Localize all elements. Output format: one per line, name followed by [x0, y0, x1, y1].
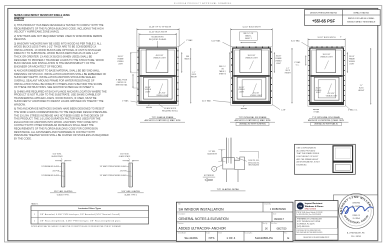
svg-text:VISIBLE: VISIBLE [315, 90, 322, 92]
meeting rail [311, 75, 343, 77]
D1 jamb anchor marks [136, 49, 139, 52]
svg-text:ANCHOR LOCATIONS @ MAX. SIZE: ANCHOR LOCATIONS @ MAX. SIZE [144, 119, 181, 122]
prepared by block [296, 217, 337, 228]
svg-text:WINDOW: WINDOW [14, 19, 25, 21]
meeting rail [234, 75, 270, 77]
svg-text:A. LYNN MILLER, P.E.: A. LYNN MILLER, P.E. [347, 232, 366, 235]
lower sash visible light [242, 80, 262, 97]
svg-text:VISIBLE LIGHT: VISIBLE LIGHT [250, 95, 262, 97]
svg-text:2) SHUTTERS ARE NOT REQUIRED W: 2) SHUTTERS ARE NOT REQUIRED WHEN USED I… [14, 35, 102, 38]
svg-text:O.C.: O.C. [296, 65, 300, 67]
svg-text:REQUIRED IN HEAD: REQUIRED IN HEAD [149, 38, 167, 41]
svg-text:ALLOWED PROVIDED: ALLOWED PROVIDED [297, 149, 316, 152]
svg-text:.090 PVB: .090 PVB [52, 171, 59, 173]
D1 bottom spacing dim [146, 106, 152, 108]
svg-text:HEIGHT: HEIGHT [285, 73, 291, 75]
svg-text:1'-7": 1'-7" [286, 68, 290, 70]
svg-text:(941) 480-1600: (941) 480-1600 [297, 226, 309, 228]
svg-text:P.E.# 58705: P.E.# 58705 [351, 236, 361, 238]
D1 right dim buck height [190, 48, 192, 103]
svg-text:CENTER OF: CENTER OF [117, 82, 126, 84]
svg-text:GLASS STACK: GLASS STACK [119, 155, 131, 158]
svg-text:JK: JK [265, 228, 268, 231]
svg-text:VISIBLE LIGHT: VISIBLE LIGHT [156, 95, 168, 97]
svg-text:47-1/16": 47-1/16" [328, 93, 335, 95]
svg-text:SH4108FLPA: SH4108FLPA [255, 236, 273, 240]
svg-text:Drawn By:: Drawn By: [264, 204, 271, 206]
svg-text:Rev. By:: Rev. By: [263, 223, 268, 225]
D2 o.c. spacing note box [240, 32, 258, 40]
lower sash [237, 77, 266, 99]
svg-text:THAT THE FRAME VISIBLE: THAT THE FRAME VISIBLE [297, 152, 320, 155]
svg-text:ANCHOR LOCATIONS @ MAX. SIZE: ANCHOR LOCATIONS @ MAX. SIZE [308, 119, 345, 122]
svg-text:SH-4108A: SH-4108A [184, 236, 197, 240]
svg-text:.090 PVB: .090 PVB [120, 171, 127, 173]
svg-text:2" MAX.: 2" MAX. [186, 39, 193, 42]
svg-text:VISIBLE: VISIBLE [349, 61, 356, 63]
svg-text:SEE: SEE [186, 56, 189, 58]
svg-text:RATED FOR LARGE & SMALL: RATED FOR LARGE & SMALL [348, 17, 376, 20]
svg-text:NTS: NTS [209, 236, 215, 240]
lower sash [143, 77, 172, 99]
stamp cell [333, 195, 377, 241]
meeting rail [140, 75, 176, 77]
glass slash marks [250, 61, 254, 70]
glazing detail frame below [225, 170, 227, 182]
svg-text:LIGHT: LIGHT [316, 92, 321, 94]
description row [271, 212, 273, 222]
svg-text:SH WINDOW INSTALLATION: SH WINDOW INSTALLATION [179, 207, 225, 211]
svg-text:EXTERIOR: EXTERIOR [204, 175, 215, 177]
svg-text:SUFFICIENTLY ANCHORED TO RESIS: SUFFICIENTLY ANCHORED TO RESIST LOADS IM… [14, 100, 104, 103]
svg-text:LIGHT: LIGHT [276, 63, 281, 65]
svg-text:GLASS BITE: GLASS BITE [207, 153, 218, 156]
svg-text:IMPACT RATING: IMPACT RATING [354, 12, 370, 15]
window frame [139, 48, 177, 103]
svg-text:CERTIFIED: CERTIFIED [352, 203, 361, 205]
svg-text:J ROBOWSKI: J ROBOWSKI [270, 207, 287, 211]
svg-text:DESIGN PRESSURE RATING: DESIGN PRESSURE RATING [310, 12, 338, 15]
svg-text:4" MAX.: 4" MAX. [122, 100, 129, 103]
D2 bottom spacing dim [241, 108, 247, 110]
svg-text:2: 2 [34, 221, 35, 223]
svg-text:VISIBLE LIGHT: VISIBLE LIGHT [326, 96, 338, 98]
D2 screw anchor marks [236, 47, 237, 48]
svg-text:REGIONS.: REGIONS. [14, 38, 27, 41]
svg-text:+55/-65 PSF: +55/-65 PSF [312, 18, 336, 23]
svg-text:1/8" Annealed, 0.090" PVB Inte: 1/8" Annealed, 0.090" PVB Interlayer, 1/… [40, 213, 120, 216]
company box [295, 201, 338, 241]
svg-text:WINDOW.: WINDOW. [14, 104, 26, 107]
upper sash visible light [146, 50, 168, 73]
revision row [261, 222, 263, 232]
svg-text:SHEET 3: SHEET 3 [245, 38, 252, 40]
svg-text:38-1/8": 38-1/8" [316, 87, 322, 89]
D2 o.c. spacing dim [241, 42, 257, 44]
svg-text:LIGHT: LIGHT [145, 92, 150, 94]
svg-text:52-1/2" BUCK WIDTH: 52-1/2" BUCK WIDTH [317, 37, 336, 39]
svg-text:MISSILE IMPACT RESISTANCE: MISSILE IMPACT RESISTANCE [347, 21, 376, 24]
svg-text:2-7/8": 2-7/8" [281, 110, 286, 112]
svg-text:VISIBLE LIGHT: VISIBLE LIGHT [320, 57, 333, 59]
svg-text:Scale:: Scale: [206, 233, 210, 235]
glass stack detail 2 [128, 163, 130, 187]
svg-text:TYP. INTEGRAL FIN FRAME: TYP. INTEGRAL FIN FRAME [239, 116, 267, 119]
svg-text:(INSTALLED WITH NAILS): (INSTALLED WITH NAILS) [314, 123, 338, 126]
D3 right dim buck height [370, 48, 372, 105]
D1 extension lines [136, 28, 138, 46]
svg-text:GENERAL NOTES & ELEVATION: GENERAL NOTES & ELEVATION [179, 217, 230, 221]
svg-text:TABLE 1: TABLE 1 [31, 203, 38, 206]
svg-text:E: E [287, 236, 289, 240]
svg-text:Impact Resistant: Impact Resistant [305, 202, 323, 205]
svg-text:HEIGHT: HEIGHT [191, 77, 197, 79]
flange/fin outline [137, 46, 179, 105]
svg-text:DOW-791, 899,: DOW-791, 899, [248, 160, 260, 162]
stamp signature [342, 206, 373, 213]
svg-text:6-1/2" MAX.: 6-1/2" MAX. [202, 99, 212, 102]
svg-text:Tel: 305-593-6590 | Fax: 305: Tel: 305-593-6590 | Fax: 305-593-6591 [296, 214, 321, 216]
svg-text:8-1/2" MAX.: 8-1/2" MAX. [291, 39, 301, 42]
svg-text:Laminated Glass Types: Laminated Glass Types [78, 207, 102, 210]
svg-text:BY THE CODE.: BY THE CODE. [14, 137, 32, 140]
glazing detail head line [240, 150, 259, 152]
lower sash visible light [148, 80, 168, 97]
svg-text:ADDED ULTRACON+ ANCHOR: ADDED ULTRACON+ ANCHOR [179, 227, 227, 231]
lower sash [314, 77, 339, 100]
svg-text:1: 1 [34, 214, 35, 216]
window frame [233, 48, 271, 103]
flange/fin outline [308, 46, 345, 106]
svg-text:TYP. GLAZING DETAIL: TYP. GLAZING DETAIL [217, 188, 240, 191]
svg-text:SERIES 4100A IMPACT RESISTANT: SERIES 4100A IMPACT RESISTANT SINGLE HUN… [14, 14, 70, 17]
svg-text:FLORIDA PRODUCT APPROVAL DRAWI: FLORIDA PRODUCT APPROVAL DRAWING [174, 2, 232, 5]
frame inner line [312, 50, 342, 103]
glass slash marks [325, 61, 329, 70]
svg-text:08/27/20: 08/27/20 [277, 228, 287, 231]
frame inner line [141, 50, 175, 102]
svg-text:1'-7": 1'-7" [360, 85, 364, 87]
D1 right dim o.c. table [181, 52, 183, 73]
rating table [305, 10, 381, 26]
svg-text:REQUIRED IN SILL: REQUIRED IN SILL [162, 110, 178, 112]
svg-text:1 OF 4: 1 OF 4 [226, 236, 235, 240]
sill [139, 101, 177, 104]
window frame [310, 48, 344, 105]
svg-text:Windows & Doors: Windows & Doors [305, 206, 324, 208]
svg-text:52-1/2" BUCK WIDTH: 52-1/2" BUCK WIDTH [149, 31, 168, 33]
svg-text:1/8" Heat-strengthened, 0.090": 1/8" Heat-strengthened, 0.090" PVB Inter… [40, 220, 121, 223]
D3 nail anchor marks [311, 46, 314, 49]
stack dim 2 [123, 160, 130, 162]
svg-text:(GE4-1200) SIL.: (GE4-1200) SIL. [248, 162, 260, 164]
glass stack detail 1 [61, 163, 63, 187]
upper sash visible light [240, 50, 262, 73]
svg-text:GLASS TYPE 1: GLASS TYPE 1 [57, 193, 70, 196]
stack dim 1 [55, 160, 62, 162]
svg-text:HEIGHT: HEIGHT [358, 90, 364, 92]
title row [262, 202, 264, 212]
company logo [297, 203, 304, 210]
svg-text:VELOCITY HURRICANE ZONE (HVHZ): VELOCITY HURRICANE ZONE (HVHZ). [14, 31, 60, 34]
svg-text:GLASS STACK: GLASS STACK [51, 155, 63, 158]
svg-text:AND THE FRAME HEIGHT: AND THE FRAME HEIGHT [297, 158, 320, 161]
svg-text:VISIBLE LIGHT: VISIBLE LIGHT [245, 58, 258, 60]
svg-text:TYP. INTEGRAL FIN FRAME: TYP. INTEGRAL FIN FRAME [312, 116, 340, 119]
title block outline [176, 202, 293, 241]
flange/fin outline [231, 46, 273, 105]
series model row [205, 231, 207, 241]
engineer stamp ring [339, 194, 374, 229]
svg-text:LIGHT: LIGHT [349, 63, 354, 65]
svg-text:VISIBLE LIGHT: VISIBLE LIGHT [153, 58, 166, 60]
svg-text:ONE CONFIGURATION: ONE CONFIGURATION [297, 147, 317, 150]
glazing detail glass unit [225, 138, 227, 164]
svg-text:ENGINEER OR ARCHITECT OF RECOR: ENGINEER OR ARCHITECT OF RECORD. [14, 65, 63, 68]
lower sash visible light [318, 80, 335, 98]
D2 right dim buck height [291, 48, 293, 103]
svg-text:8-1/2" MAX.: 8-1/2" MAX. [211, 39, 221, 42]
sill [310, 102, 344, 105]
svg-text:(INSTALLED WITH SCREWS): (INSTALLED WITH SCREWS) [239, 123, 266, 126]
svg-text:5/16" LAM. GLAZING: 5/16" LAM. GLAZING [121, 190, 140, 193]
svg-text:NO ANCHORS: NO ANCHORS [151, 36, 164, 39]
svg-text:SEE O.C. ON: SEE O.C. ON [243, 33, 254, 35]
svg-text:LIGHT: LIGHT [239, 92, 244, 94]
svg-text:Revision:: Revision: [178, 223, 185, 225]
svg-text:1'-7": 1'-7" [192, 72, 196, 74]
frame inner line [235, 50, 269, 102]
svg-text:INTERLAYER MAY BE SAFLEX CLEAR: INTERLAYER MAY BE SAFLEX CLEAR PVB OR SE… [31, 225, 122, 228]
table 1 [31, 206, 149, 224]
svg-text:5/16" LAM. GLAZING: 5/16" LAM. GLAZING [54, 190, 73, 193]
glass slash marks [156, 61, 160, 70]
svg-text:ANCHOR LOCATIONS @ MAX. SIZE: ANCHOR LOCATIONS @ MAX. SIZE [234, 119, 271, 122]
svg-text:OF THESE INSTRUCTIONS. SEE ANC: OF THESE INSTRUCTIONS. SEE ANCHOR SCHEDU… [14, 86, 95, 89]
configuration window diagram [333, 146, 353, 173]
company address [295, 210, 338, 212]
svg-text:09/20/17: 09/20/17 [274, 218, 284, 221]
sill [233, 101, 271, 104]
svg-text:AS SHOWN ABOVE, IS NOT: AS SHOWN ABOVE, IS NOT [297, 161, 321, 164]
glazing detail bead profile [223, 158, 235, 170]
svg-text:CGI: CGI [299, 206, 303, 208]
D3 bottom spacing dim [313, 109, 319, 111]
svg-text:COPYRIGHT BY CGI WINDOWS 2020: COPYRIGHT BY CGI WINDOWS 2020 [296, 230, 320, 232]
svg-text:53-1/8" TIP TO TIP WIDTH: 53-1/8" TIP TO TIP WIDTH [149, 27, 172, 29]
svg-text:EXCEEDED.: EXCEEDED. [297, 164, 308, 166]
upper sash visible light [316, 50, 335, 73]
svg-text:52-1/2" BUCK WIDTH: 52-1/2" BUCK WIDTH [242, 27, 261, 29]
svg-text:TYP. FLANGE FRAME: TYP. FLANGE FRAME [152, 116, 174, 119]
svg-text:38-1/8": 38-1/8" [349, 56, 355, 58]
svg-text:LIGHT: LIGHT [118, 63, 123, 65]
configuration note box [295, 144, 356, 174]
svg-text:GLASS TYPE 2: GLASS TYPE 2 [124, 193, 137, 196]
svg-text:LIGHT HEIGHT OF 58-5/8": LIGHT HEIGHT OF 58-5/8" [297, 156, 319, 158]
svg-text:SHEET 3: SHEET 3 [219, 73, 226, 75]
svg-text:NO ANCHORS: NO ANCHORS [164, 107, 177, 110]
balloon 2 [212, 166, 217, 171]
